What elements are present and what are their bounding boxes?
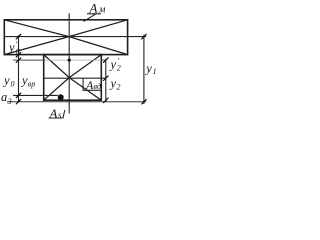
svg-text:у: у	[7, 41, 15, 55]
svg-text:вд: вд	[94, 82, 101, 91]
svg-text:у: у	[2, 74, 10, 88]
svg-text:s: s	[58, 110, 62, 120]
svg-text:м: м	[98, 5, 106, 16]
svg-text:у: у	[144, 62, 152, 76]
svg-text:2: 2	[117, 83, 121, 92]
svg-text:0: 0	[11, 80, 15, 89]
svg-text:3: 3	[7, 97, 12, 106]
svg-text:у: у	[20, 74, 28, 88]
svg-text:вр: вр	[28, 80, 35, 89]
svg-text:1: 1	[153, 67, 157, 76]
svg-text:0: 0	[16, 47, 20, 56]
svg-text:А: А	[89, 1, 98, 16]
svg-text:у: у	[109, 58, 117, 72]
svg-text:2: 2	[117, 64, 121, 73]
svg-text:А: А	[49, 106, 58, 121]
svg-text:а: а	[1, 90, 7, 104]
svg-text:у: у	[109, 77, 117, 91]
